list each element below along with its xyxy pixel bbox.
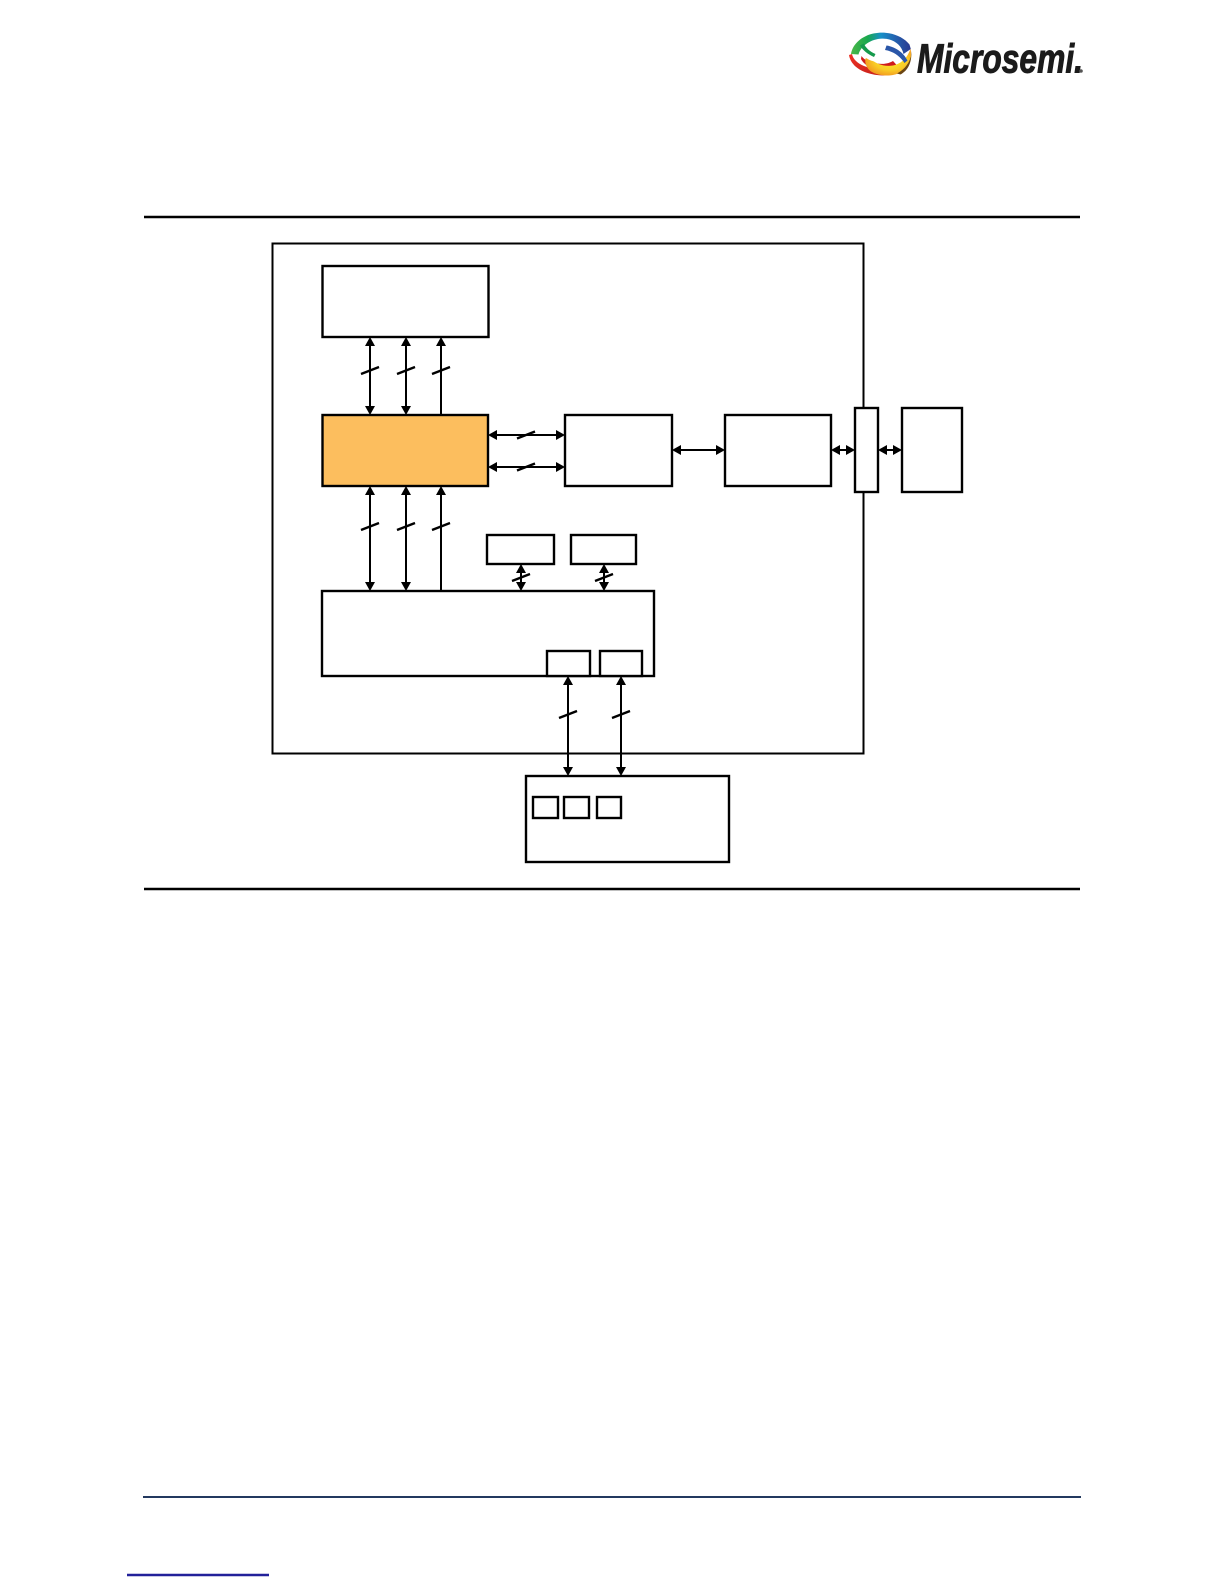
wire: bus arrow 1 (top block to orange block) (361, 337, 379, 415)
wire: bus arrow 2 (top block to orange block) (397, 337, 415, 415)
top section divider (144, 216, 1080, 219)
outer block boundary (273, 244, 864, 754)
Microsemi logo globe (849, 33, 911, 76)
wire: bus arrow r1 to bottom block (559, 676, 577, 776)
wire: bus arrow 6 (wide block up to orange block) (432, 486, 450, 591)
wire: bus arrow S1 to wide block (512, 564, 530, 591)
wire: bus arrow r2 to bottom block (612, 676, 630, 776)
sub-block r1 inside wide block (547, 651, 590, 676)
footnote rule (127, 1574, 269, 1576)
svg-text:Microsemi.: Microsemi. (917, 36, 1083, 82)
boundary pad (narrow box on boundary) (855, 408, 878, 492)
wire: bus arrow 5 (orange block to wide block) (397, 486, 415, 591)
wire: arrow block B to boundary pad (831, 445, 855, 455)
wire: horizontal bus arrow A (orange block to block A) (488, 430, 565, 440)
wire: horizontal bus arrow B (orange block to block A) (488, 462, 565, 472)
footer rule (143, 1496, 1081, 1498)
small block S1 (487, 535, 554, 564)
square 2 in bottom block (564, 797, 589, 818)
square 1 in bottom block (533, 797, 558, 818)
block B (725, 415, 831, 486)
square 3 in bottom block (597, 797, 621, 818)
wire: arrow boundary pad to block C (878, 445, 902, 455)
Microsemi logo registered mark (1079, 69, 1083, 73)
orange block (323, 415, 489, 486)
wire: bus arrow S2 to wide block (595, 564, 613, 591)
block C (external) (902, 408, 962, 492)
bottom section divider (144, 888, 1080, 891)
bottom external block (526, 776, 729, 862)
wire: bus arrow 4 (orange block to wide block) (361, 486, 379, 591)
wire: bus arrow 3 (orange block up to top block) (432, 337, 450, 415)
wire: arrow block A to block B (672, 445, 725, 455)
sub-block r2 inside wide block (600, 651, 642, 676)
block A (565, 415, 672, 486)
small block S2 (571, 535, 636, 564)
wide block (322, 591, 654, 676)
box: top-left white block (323, 266, 489, 337)
